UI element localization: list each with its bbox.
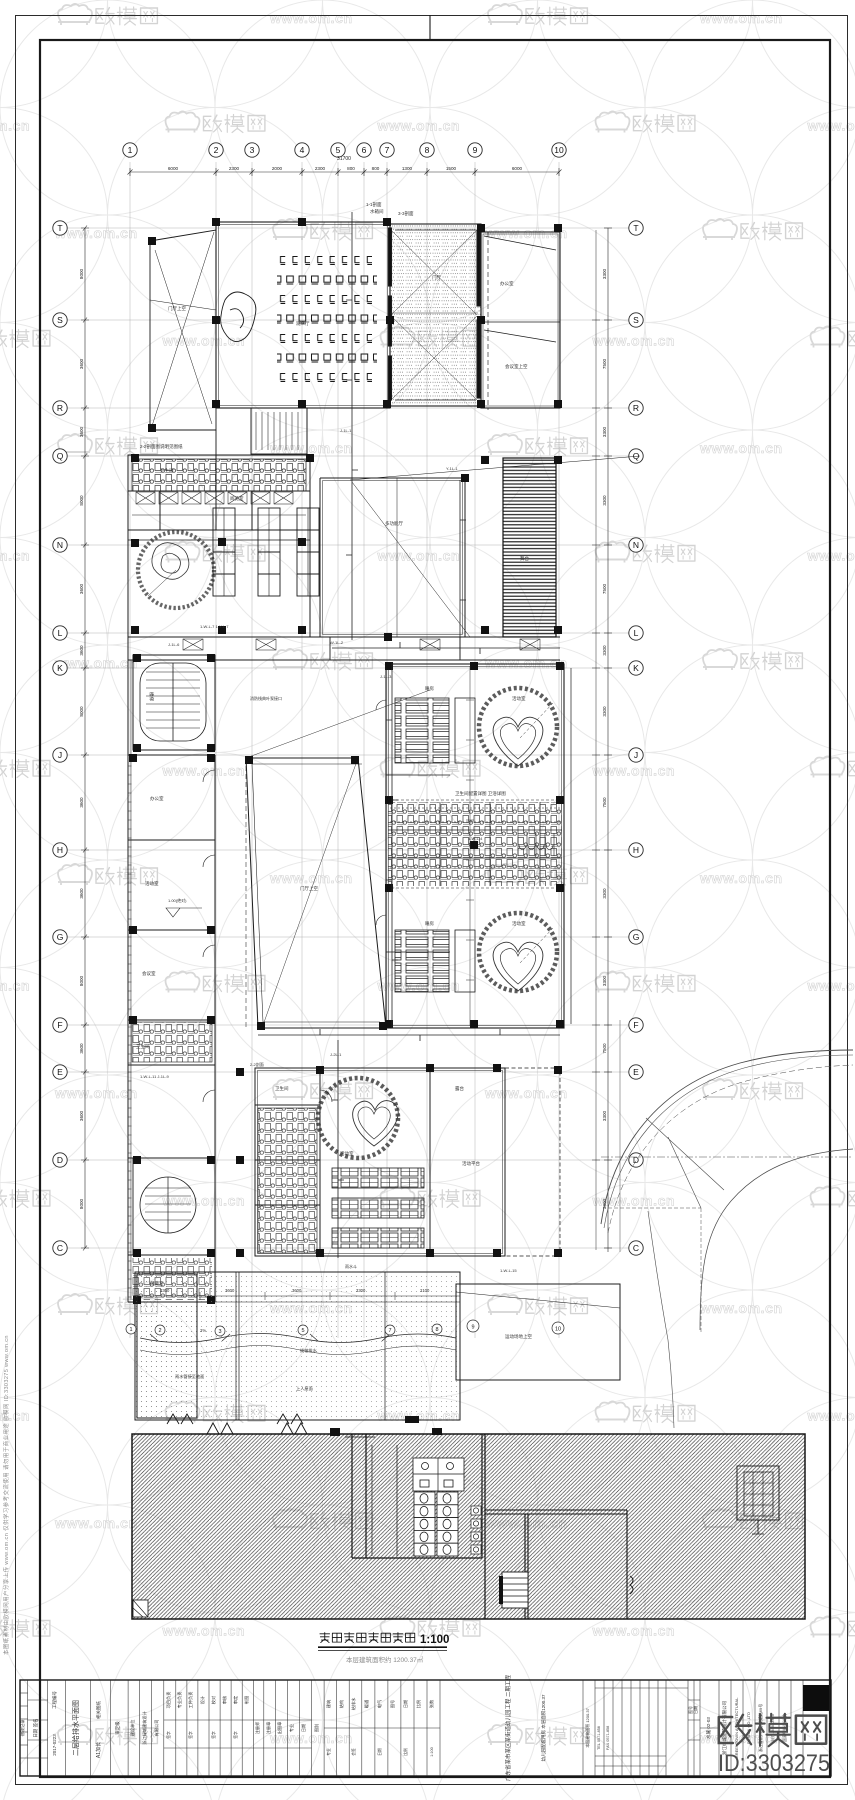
svg-text:J-1L-3: J-1L-3 <box>380 674 392 679</box>
drawing title <box>320 1633 415 1643</box>
svg-text:D: D <box>57 1155 63 1165</box>
stairwell below auditorium <box>251 408 307 454</box>
svg-text:水施 02-03: 水施 02-03 <box>705 1717 712 1739</box>
left lower rooms fixtures <box>132 1258 212 1300</box>
axis bubbles top <box>123 143 566 157</box>
svg-text:2: 2 <box>214 145 219 155</box>
svg-text:卫生间配置详图 卫浴详图: 卫生间配置详图 卫浴详图 <box>455 790 506 797</box>
svg-text:H: H <box>57 845 63 855</box>
balcony dashed line <box>245 758 247 1030</box>
svg-text:5: 5 <box>301 1328 304 1334</box>
svg-text:6: 6 <box>362 145 367 155</box>
piano curve <box>221 292 256 342</box>
left wall window ticks <box>128 660 132 1300</box>
right open panel <box>456 1284 620 1380</box>
lower labels <box>150 1085 464 1287</box>
top dimension line <box>128 168 562 176</box>
terrace dimension row <box>135 1292 460 1300</box>
right office rooms <box>481 232 560 408</box>
svg-text:T: T <box>57 223 62 233</box>
svg-text:1: 1 <box>128 145 133 155</box>
svg-text:10: 10 <box>555 1327 561 1333</box>
svg-text:TEL 0571-858: TEL 0571-858 <box>597 1726 601 1750</box>
svg-text:800: 800 <box>347 166 355 171</box>
toilet band center <box>388 802 562 886</box>
svg-text:门厅上空: 门厅上空 <box>168 305 186 312</box>
svg-text:J: J <box>634 750 638 760</box>
svg-text:给排水: 给排水 <box>350 1697 357 1710</box>
svg-text:H: H <box>633 845 639 855</box>
svg-text:设计: 设计 <box>199 1696 206 1704</box>
svg-text:1: 1 <box>129 1327 132 1333</box>
svg-text:活动室: 活动室 <box>145 880 159 887</box>
svg-text:2-2剖面: 2-2剖面 <box>250 1061 264 1067</box>
svg-text:1-W-L-4: 1-W-L-4 <box>468 836 483 841</box>
play circle lower <box>479 913 557 991</box>
svg-text:S: S <box>633 315 639 325</box>
axis bubbles right <box>629 221 643 1255</box>
right dimension line <box>604 228 612 1252</box>
stage border lines <box>390 224 481 406</box>
axis bubbles left <box>53 221 67 1255</box>
stage wall segments <box>389 228 481 400</box>
pipe labels <box>140 428 517 1273</box>
svg-text:FAX 0571-858: FAX 0571-858 <box>606 1726 610 1750</box>
MAIN PLAN <box>150 222 560 455</box>
corner notch <box>133 1600 148 1617</box>
svg-text:雨水管接至地面: 雨水管接至地面 <box>175 1373 204 1380</box>
svg-text:卫生间: 卫生间 <box>136 1043 150 1050</box>
svg-text:Y-1L-1: Y-1L-1 <box>446 466 458 471</box>
svg-text:日期 签名: 日期 签名 <box>32 1718 39 1737</box>
svg-text:3300: 3300 <box>356 1288 366 1293</box>
svg-text:N: N <box>633 540 639 550</box>
svg-text:4: 4 <box>300 145 305 155</box>
lower center block <box>255 1068 505 1256</box>
svg-text:N: N <box>57 540 63 550</box>
left wing labels <box>136 692 164 1050</box>
svg-text:审核: 审核 <box>221 1695 228 1704</box>
corridor door boxes <box>183 639 540 650</box>
svg-text:校对: 校对 <box>210 1696 217 1704</box>
seats <box>277 246 377 390</box>
svg-text:3600: 3600 <box>79 645 84 656</box>
svg-text:雨水斗: 雨水斗 <box>345 1263 357 1269</box>
svg-text:签字: 签字 <box>166 1731 171 1739</box>
svg-text:3600: 3600 <box>79 583 84 594</box>
svg-text:活动室: 活动室 <box>512 920 526 927</box>
svg-text:8000: 8000 <box>79 706 84 717</box>
svg-text:日期: 日期 <box>692 1706 698 1714</box>
toilet block upper-left <box>128 455 310 530</box>
svg-text:1:100: 1:100 <box>430 1747 434 1757</box>
hall outline <box>128 455 640 660</box>
svg-text:1-W-L-11 J-1L-9: 1-W-L-11 J-1L-9 <box>140 1074 170 1079</box>
svg-text:2100: 2100 <box>420 1288 430 1293</box>
svg-text:工种负责: 工种负责 <box>187 1692 194 1709</box>
svg-text:制图: 制图 <box>243 1696 250 1704</box>
svg-text:C: C <box>633 1243 639 1253</box>
classroom labels <box>425 685 526 927</box>
svg-text:3600: 3600 <box>225 1288 235 1293</box>
svg-text:8: 8 <box>435 1327 438 1333</box>
svg-text:7500: 7500 <box>602 797 607 808</box>
svg-text:暖通: 暖通 <box>363 1699 370 1708</box>
svg-text:本层建筑面积 1200.37: 本层建筑面积 1200.37 <box>584 1707 590 1747</box>
svg-text:二层给排水平面图: 二层给排水平面图 <box>71 1700 80 1756</box>
grid detail square <box>737 1466 779 1534</box>
stage dotted floor <box>390 224 481 406</box>
svg-text:G: G <box>633 932 640 942</box>
svg-text:找坡排水: 找坡排水 <box>300 1347 318 1354</box>
svg-text:运动场地上空: 运动场地上空 <box>505 1333 532 1340</box>
svg-text:会议室: 会议室 <box>142 970 156 977</box>
labels mid <box>140 443 529 562</box>
svg-text:5: 5 <box>336 145 341 155</box>
svg-text:7500: 7500 <box>602 583 607 594</box>
svg-text:R: R <box>633 403 639 413</box>
round room <box>138 532 214 608</box>
svg-text:3300: 3300 <box>602 426 607 437</box>
svg-text:6000: 6000 <box>512 166 523 171</box>
svg-text:3300: 3300 <box>602 1110 607 1121</box>
svg-text:8000: 8000 <box>79 1198 84 1209</box>
svg-text:L: L <box>634 628 639 638</box>
svg-text:卫生间: 卫生间 <box>275 1085 289 1092</box>
svg-text:阅览室: 阅览室 <box>230 495 244 502</box>
svg-text:审定级: 审定级 <box>114 1721 121 1735</box>
svg-text:3600: 3600 <box>79 797 84 808</box>
stage stripes block <box>503 458 556 637</box>
bottom hatched block <box>132 1434 805 1619</box>
svg-text:浙江绿城建筑设计: 浙江绿城建筑设计 <box>141 1711 148 1745</box>
svg-text:3600: 3600 <box>79 1043 84 1054</box>
columns (auditorium) <box>148 218 562 432</box>
svg-text:3600: 3600 <box>79 888 84 899</box>
svg-text:7500: 7500 <box>602 358 607 369</box>
lower right room <box>430 1068 560 1256</box>
svg-text:办公室: 办公室 <box>500 280 514 287</box>
svg-text:3600: 3600 <box>79 426 84 437</box>
svg-text:多功能厅: 多功能厅 <box>385 520 403 527</box>
svg-text:建设单位: 建设单位 <box>129 1720 136 1737</box>
svg-text:C: C <box>57 1243 63 1253</box>
svg-text:7: 7 <box>385 145 390 155</box>
tables mid-left <box>213 508 319 596</box>
columns mid <box>131 454 562 641</box>
central trapezoid room <box>246 690 430 1028</box>
svg-text:3300: 3300 <box>160 1288 170 1293</box>
svg-text:相关图纸: 相关图纸 <box>95 1701 102 1719</box>
upper corridor lines <box>128 530 310 540</box>
svg-text:水箱间: 水箱间 <box>370 208 384 215</box>
svg-text:有限公司: 有限公司 <box>153 1720 160 1737</box>
svg-text:日期: 日期 <box>377 1748 382 1756</box>
tables lower <box>332 1168 424 1248</box>
svg-text:会签: 会签 <box>351 1748 356 1756</box>
svg-text:结构: 结构 <box>338 1700 345 1708</box>
svg-text:幼儿园配套用房 本层面积1200.37: 幼儿园配套用房 本层面积1200.37 <box>540 1694 547 1762</box>
svg-text:D: D <box>633 1155 639 1165</box>
svg-text:活动平台: 活动平台 <box>462 1160 480 1167</box>
door arcs left wing <box>203 700 386 1102</box>
svg-text:3300: 3300 <box>602 975 607 986</box>
play circle upper <box>479 688 557 766</box>
svg-text:消防栈典叶泵接口: 消防栈典叶泵接口 <box>250 695 282 701</box>
svg-text:J-1L-1: J-1L-1 <box>340 428 352 433</box>
svg-text:出图章: 出图章 <box>276 1722 283 1735</box>
svg-text:J-2L-1: J-2L-1 <box>330 1052 342 1057</box>
svg-text:2300: 2300 <box>315 166 326 171</box>
svg-text:F: F <box>57 1020 62 1030</box>
svg-text:修改记录: 修改记录 <box>19 1720 26 1737</box>
svg-text:7500: 7500 <box>602 1043 607 1054</box>
spiral stair lower-left <box>133 1158 215 1255</box>
svg-text:J: J <box>58 750 62 760</box>
svg-text:8000: 8000 <box>79 268 84 279</box>
svg-text:办公室: 办公室 <box>150 795 164 802</box>
svg-text:3600: 3600 <box>292 1288 302 1293</box>
svg-text:比例: 比例 <box>403 1748 408 1756</box>
left dimension line <box>81 226 89 1251</box>
svg-text:1-1剖面: 1-1剖面 <box>366 201 382 208</box>
svg-text:8: 8 <box>425 145 430 155</box>
svg-text:2000: 2000 <box>272 166 283 171</box>
X-box drains row <box>136 492 293 504</box>
svg-text:3300: 3300 <box>602 495 607 506</box>
svg-text:专业: 专业 <box>326 1748 331 1756</box>
water pipes <box>258 212 560 1258</box>
svg-text:ID:3303275: ID:3303275 <box>718 1750 830 1777</box>
stair room in hatch <box>485 1510 627 1619</box>
svg-text:张数: 张数 <box>428 1699 435 1708</box>
svg-text:2300: 2300 <box>229 166 240 171</box>
aud-bottom corridor walls <box>216 408 390 455</box>
svg-text:3300: 3300 <box>602 888 607 899</box>
toilet band details <box>390 808 560 868</box>
columns middle <box>129 654 564 1030</box>
svg-text:9: 9 <box>471 1325 474 1331</box>
svg-text:K: K <box>57 663 63 673</box>
labels above auditorium <box>168 201 528 370</box>
title block black square <box>803 1685 829 1711</box>
bottom door marks <box>167 1414 303 1424</box>
svg-text:T: T <box>633 223 638 233</box>
svg-text:2-2剖面图说明见图纸: 2-2剖面图说明见图纸 <box>140 443 183 450</box>
big scalloped circle lower <box>318 1078 398 1158</box>
svg-text:项目负责: 项目负责 <box>165 1692 172 1709</box>
svg-text:W-1L-2: W-1L-2 <box>330 640 344 645</box>
svg-text:注册师: 注册师 <box>254 1722 261 1735</box>
toilet detail room <box>258 1434 485 1619</box>
svg-text:注册章: 注册章 <box>265 1722 272 1735</box>
svg-text:睡房: 睡房 <box>425 685 434 692</box>
stair steps <box>499 1572 633 1608</box>
svg-text:签字: 签字 <box>188 1731 193 1739</box>
toilet stalls <box>413 1458 481 1556</box>
svg-text:1500: 1500 <box>446 166 457 171</box>
svg-text:活动室: 活动室 <box>512 695 526 702</box>
svg-text:800: 800 <box>372 166 380 171</box>
svg-text:活动室: 活动室 <box>340 1150 354 1157</box>
svg-text:1300: 1300 <box>402 166 413 171</box>
svg-text:2017-0223: 2017-0223 <box>52 1734 57 1756</box>
svg-text:S: S <box>57 315 63 325</box>
svg-text:7: 7 <box>388 1328 391 1334</box>
svg-text:3300: 3300 <box>602 706 607 717</box>
left wing rooms <box>128 660 215 1302</box>
svg-text:舞台: 舞台 <box>520 555 529 562</box>
svg-text:E: E <box>633 1067 639 1077</box>
svg-text:卫生间: 卫生间 <box>160 467 174 474</box>
terrace band <box>135 1272 460 1420</box>
svg-text:广东省某市某区某街道幼儿园工程 二期工程: 广东省某市某区某街道幼儿园工程 二期工程 <box>504 1674 512 1781</box>
svg-text:会议室上空: 会议室上空 <box>505 363 528 370</box>
svg-text:9: 9 <box>473 145 478 155</box>
svg-text:1-W-L-7 1-Y-L-7: 1-W-L-7 1-Y-L-7 <box>200 624 229 629</box>
svg-text:10: 10 <box>554 145 564 155</box>
spiral stair room top-left <box>133 655 215 750</box>
mid corridor <box>128 637 560 660</box>
svg-text:R: R <box>57 403 63 413</box>
svg-text:E: E <box>57 1067 63 1077</box>
svg-text:上人屋面: 上人屋面 <box>296 1385 313 1392</box>
svg-text:3300: 3300 <box>602 268 607 279</box>
svg-text:3: 3 <box>250 145 255 155</box>
svg-text:1:100: 1:100 <box>420 1634 449 1646</box>
svg-text:F: F <box>633 1020 638 1030</box>
svg-text:3600: 3600 <box>79 358 84 369</box>
svg-text:建筑: 建筑 <box>325 1699 332 1708</box>
site curves <box>601 1020 853 1428</box>
svg-text:比例: 比例 <box>415 1700 422 1708</box>
svg-text:8000: 8000 <box>79 495 84 506</box>
svg-text:31700: 31700 <box>337 156 351 162</box>
svg-text:8000: 8000 <box>79 975 84 986</box>
svg-text:露台: 露台 <box>455 1085 464 1092</box>
svg-text:电气: 电气 <box>376 1699 382 1708</box>
om watermark logo text <box>719 1714 826 1746</box>
svg-text:3300: 3300 <box>602 645 607 656</box>
svg-text:G: G <box>57 932 64 942</box>
svg-text:K: K <box>633 663 639 673</box>
right classroom block walls <box>386 664 571 1028</box>
svg-text:本层建筑面积约 1200.37㎡: 本层建筑面积约 1200.37㎡ <box>346 1655 424 1664</box>
svg-text:签字: 签字 <box>233 1731 238 1739</box>
svg-text:审定: 审定 <box>232 1696 239 1704</box>
svg-text:图别: 图别 <box>313 1724 320 1732</box>
drainage waves <box>140 1334 456 1355</box>
svg-text:1.00(绝对): 1.00(绝对) <box>168 897 187 903</box>
svg-text:睡房: 睡房 <box>425 920 434 927</box>
svg-text:3600: 3600 <box>79 1110 84 1121</box>
svg-text:3-3剖面: 3-3剖面 <box>398 210 414 217</box>
svg-text:J-1L-6: J-1L-6 <box>168 642 180 647</box>
svg-text:楼梯: 楼梯 <box>148 692 155 701</box>
grid lines <box>66 162 640 1338</box>
auditorium walls <box>216 222 390 408</box>
top fold mark <box>429 15 431 40</box>
svg-text:门厅上空: 门厅上空 <box>300 885 318 892</box>
svg-text:6000: 6000 <box>168 166 179 171</box>
svg-text:签字: 签字 <box>211 1731 216 1739</box>
svg-text:专业负责: 专业负责 <box>176 1692 183 1709</box>
beds upper classroom <box>395 698 449 992</box>
svg-text:Q: Q <box>57 451 64 461</box>
title block frame <box>20 1680 831 1776</box>
svg-text:专业: 专业 <box>288 1724 295 1732</box>
inner dim chain right block <box>466 230 600 1250</box>
columns lower <box>133 1064 562 1304</box>
svg-text:本图纸素材由欧模网用户分享上传 www.om.cn 仅供学习: 本图纸素材由欧模网用户分享上传 www.om.cn 仅供学习参考交流使用 请勿用… <box>2 1335 10 1655</box>
svg-text:2: 2 <box>158 1328 161 1334</box>
slope marks <box>166 897 202 917</box>
svg-text:A1加长: A1加长 <box>95 1742 102 1758</box>
door marks above block <box>207 1423 307 1434</box>
svg-text:工程编号: 工程编号 <box>51 1691 58 1709</box>
svg-text:3: 3 <box>218 1329 221 1335</box>
left trapezoid room <box>150 230 216 430</box>
svg-text:L: L <box>58 628 63 638</box>
svg-text:门厅: 门厅 <box>432 274 441 281</box>
terrace bottom bubbles <box>126 1320 564 1336</box>
svg-text:1-W-L-15: 1-W-L-15 <box>500 1268 517 1273</box>
svg-text:2%: 2% <box>200 1328 206 1333</box>
